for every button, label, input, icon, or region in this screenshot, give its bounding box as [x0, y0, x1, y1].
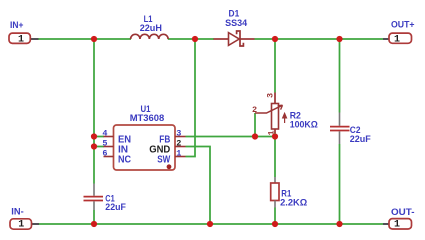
wire EN tap — [94, 136, 104, 138]
port IN- — [10, 206, 39, 230]
svg-text:4: 4 — [102, 128, 107, 138]
wire GND net — [186, 147, 211, 225]
svg-text:22uF: 22uF — [350, 134, 371, 145]
wire left vertical VIN column upper — [93, 39, 95, 184]
wire bottom rail — [39, 223, 383, 225]
svg-text:1: 1 — [176, 148, 181, 158]
junction dot IN — [91, 143, 97, 149]
wire C2 feed upper — [339, 39, 341, 113]
svg-text:NC: NC — [118, 154, 131, 165]
svg-text:22uF: 22uF — [105, 202, 126, 213]
wire R2 bottom to FB — [274, 133, 276, 137]
svg-text:SW: SW — [157, 154, 170, 165]
op-amp U1 MT3608 — [114, 104, 176, 170]
svg-text:5: 5 — [102, 138, 107, 148]
junction dot bottom C1 — [91, 221, 97, 227]
wire R2 top feed — [274, 39, 276, 93]
port OUT- — [383, 207, 415, 231]
svg-text:OUT-: OUT- — [391, 207, 415, 218]
svg-text:1: 1 — [18, 220, 24, 231]
junction dot FB wiper — [252, 133, 258, 139]
svg-text:6: 6 — [102, 148, 107, 158]
pin 2 GND — [149, 138, 185, 155]
svg-text:SS34: SS34 — [225, 18, 248, 29]
junction dot FB R2 — [272, 133, 278, 139]
pin 4 EN — [102, 128, 131, 145]
junction dot bottom C2 — [336, 221, 342, 227]
wire R1 top feed — [274, 137, 276, 178]
junction dot bottom R1 — [272, 221, 278, 227]
svg-text:1: 1 — [394, 220, 400, 231]
wire top rail middle segment — [168, 38, 214, 40]
wire R1 bottom feed — [274, 208, 276, 225]
junction dot EN — [91, 133, 97, 139]
svg-text:1: 1 — [18, 34, 24, 45]
potentiometer R2 — [252, 93, 318, 136]
junction dot top VIN — [91, 36, 97, 42]
svg-text:22uH: 22uH — [140, 23, 162, 34]
wire SW net — [186, 39, 196, 157]
port OUT+ — [383, 20, 415, 46]
wire C2 feed lower — [339, 144, 341, 224]
wire IN tap — [94, 146, 104, 148]
port IN+ — [9, 20, 39, 45]
pin 3 FB — [159, 128, 185, 145]
svg-text:MT3608: MT3608 — [130, 113, 165, 124]
wire FB net — [186, 136, 276, 138]
svg-text:IN-: IN- — [11, 206, 23, 217]
diode D1 — [214, 9, 255, 47]
svg-text:IN+: IN+ — [10, 20, 24, 31]
pin 6 NC — [102, 148, 131, 165]
svg-text:1: 1 — [394, 34, 400, 45]
wire top rail left segment — [39, 38, 132, 40]
svg-text:3: 3 — [176, 128, 181, 138]
svg-text:OUT+: OUT+ — [391, 20, 415, 31]
junction dot top VOUT C2 — [336, 36, 342, 42]
wire top rail right segment — [255, 38, 384, 40]
pin 5 IN — [102, 138, 128, 155]
capacitor C1 — [84, 184, 127, 214]
inductor L1 — [131, 14, 169, 39]
svg-text:2: 2 — [176, 138, 181, 148]
junction dot top SW — [192, 36, 198, 42]
junction dot bottom GND — [207, 221, 213, 227]
pin 1 SW — [157, 148, 185, 169]
capacitor C2 — [330, 113, 371, 145]
wire R2 wiper drop — [254, 113, 256, 137]
resistor R1 — [271, 177, 308, 209]
wire left vertical VIN column lower — [93, 210, 95, 224]
svg-text:3: 3 — [266, 93, 276, 98]
svg-text:100KΩ: 100KΩ — [290, 119, 319, 130]
junction dot top VOUT R2 — [272, 36, 278, 42]
svg-text:2.2KΩ: 2.2KΩ — [280, 198, 307, 209]
